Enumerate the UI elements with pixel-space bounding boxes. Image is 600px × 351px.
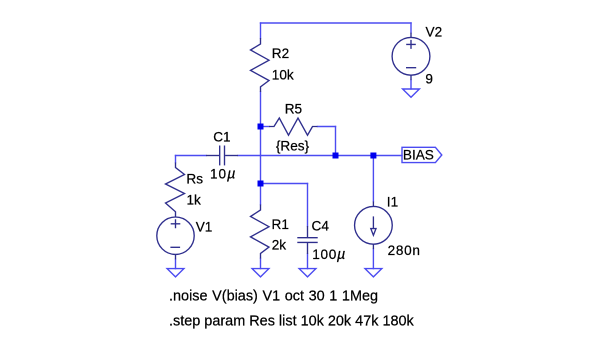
svg-text:C4: C4	[312, 218, 330, 233]
svg-text:I1: I1	[387, 195, 398, 210]
svg-text:BIAS: BIAS	[403, 147, 434, 162]
svg-text:280n: 280n	[388, 243, 421, 258]
svg-text:Rs: Rs	[186, 171, 203, 186]
svg-text:.step param Res list 10k 20k 4: .step param Res list 10k 20k 47k 180k	[169, 313, 415, 329]
svg-text:R2: R2	[272, 46, 289, 61]
svg-text:9: 9	[425, 72, 433, 87]
svg-text:R1: R1	[272, 217, 289, 232]
svg-text:R5: R5	[285, 101, 302, 116]
svg-text:.noise V(bias) V1 oct 30 1 1Me: .noise V(bias) V1 oct 30 1 1Meg	[169, 289, 378, 305]
svg-text:100µ: 100µ	[312, 247, 346, 263]
svg-text:1k: 1k	[187, 193, 202, 208]
svg-text:V2: V2	[426, 24, 443, 39]
svg-text:2k: 2k	[272, 237, 287, 252]
svg-text:{Res}: {Res}	[276, 139, 310, 154]
svg-text:10µ: 10µ	[210, 166, 236, 182]
svg-text:10k: 10k	[272, 67, 294, 82]
svg-text:C1: C1	[213, 129, 230, 144]
svg-text:V1: V1	[196, 220, 213, 235]
